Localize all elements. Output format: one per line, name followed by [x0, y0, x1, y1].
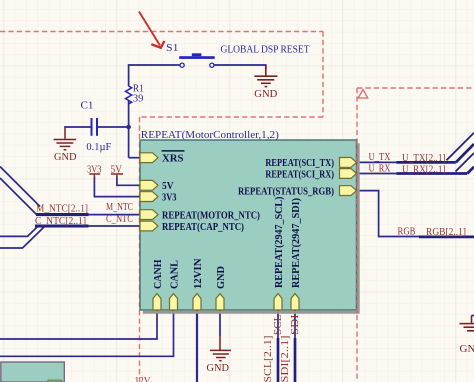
svg-text:U_TX: U_TX [369, 152, 391, 163]
svg-text:REPEAT(2947_SCL): REPEAT(2947_SCL) [273, 196, 285, 288]
svg-text:3V3: 3V3 [162, 191, 177, 203]
sheet entry 12VIN [193, 294, 201, 310]
svg-text:U_TX[2..1]: U_TX[2..1] [402, 153, 446, 164]
svg-text:GND: GND [54, 151, 77, 163]
svg-text:REPEAT(2947_SDI): REPEAT(2947_SDI) [290, 198, 302, 288]
wire right edge to GND [472, 315, 474, 317]
svg-text:GLOBAL DSP RESET: GLOBAL DSP RESET [221, 43, 310, 55]
ground at right edge [460, 316, 474, 331]
wire CANH [0, 310, 157, 339]
ground below sheet GND pin [210, 336, 231, 361]
svg-text:C1: C1 [81, 99, 94, 111]
wire C1 left plate to GND [65, 126, 91, 129]
svg-text:U_RX: U_RX [369, 163, 391, 174]
sheet entry MOTOR_NTC [140, 210, 158, 220]
wire 12VIN [196, 310, 198, 382]
wire GND pin drop [219, 310, 221, 336]
wire XRS stub [129, 157, 140, 159]
svg-text:REPEAT(CAP_NTC): REPEAT(CAP_NTC) [162, 221, 244, 233]
bus U_TX[2..1] [397, 161, 456, 164]
svg-text:12VIN: 12VIN [192, 258, 204, 289]
blanket right room left edge overlay on sheet shadow [356, 140, 358, 315]
wire M_NTC [89, 214, 141, 216]
wire diagonal into M_NTC bus upper [0, 167, 40, 207]
bus U_TX diagonal [456, 144, 474, 162]
svg-text:RGB: RGB [398, 226, 416, 237]
sheet entry 5V [140, 180, 158, 190]
blanket REPEAT room left edge [139, 117, 141, 382]
blanket GLOBAL DSP RESET right edge [322, 32, 324, 118]
wire S1 right to GND drop [214, 65, 266, 69]
wire R1 bottom to XRS node [128, 100, 130, 157]
sheet entry XRS [140, 153, 158, 163]
svg-text:CANH: CANH [152, 259, 164, 289]
sheet entry SCI_RX [340, 169, 357, 179]
resistor R1 [126, 86, 132, 104]
svg-text:REPEAT(SCI_RX): REPEAT(SCI_RX) [265, 168, 334, 180]
ground below C1 [54, 127, 77, 150]
wire diagonal from C_NTC bus upper [0, 227, 38, 237]
capacitor C1 [92, 118, 98, 136]
bus U_TX upper diagonal [447, 133, 474, 161]
svg-text:SCL: SCL [273, 315, 284, 336]
wire S1 left to R1 top [129, 65, 181, 86]
svg-text:SDI[2..1]: SDI[2..1] [280, 336, 291, 382]
blanket right room top edge [357, 87, 474, 89]
sheet symbol U_Motor body [140, 140, 357, 310]
svg-text:XRS: XRS [162, 153, 184, 165]
wire U_RX [357, 173, 397, 175]
svg-text:M_NTC[2..1]: M_NTC[2..1] [36, 204, 88, 215]
junction node C1/R1/XRS [126, 125, 131, 130]
svg-text:C_NTC: C_NTC [106, 214, 133, 225]
wire SCL thin [277, 310, 279, 338]
svg-text:SCL[2..1]: SCL[2..1] [263, 336, 274, 382]
svg-text:S1: S1 [166, 42, 179, 54]
bus U_RX[2..1] [397, 172, 468, 175]
wire RGB from STATUS_RGB entry [357, 191, 420, 237]
svg-text:REPEAT(MotorController,1,2): REPEAT(MotorController,1,2) [141, 129, 279, 141]
sheet entry CAP_NTC [140, 221, 158, 231]
svg-text:3V3: 3V3 [87, 163, 102, 175]
bus U_RX diagonal [467, 167, 474, 174]
blanket triangle marker [358, 90, 368, 99]
svg-text:C_NTC[2..1]: C_NTC[2..1] [35, 216, 86, 227]
sheet entry 3V3 [140, 192, 158, 202]
power port 3V3 [89, 174, 100, 178]
wire C1 right plate to node [98, 126, 129, 128]
wire 3V3 to sheet entry [94, 177, 140, 197]
bus C_NTC[2..1] [35, 224, 89, 227]
svg-text:5V: 5V [111, 163, 123, 175]
svg-text:REPEAT(MOTOR_NTC): REPEAT(MOTOR_NTC) [162, 209, 260, 221]
svg-text:GND: GND [207, 362, 230, 374]
power port 5V [111, 174, 123, 178]
wire diagonal into M_NTC bus lower [0, 178, 37, 215]
svg-text:RGB[2..1]: RGB[2..1] [426, 227, 466, 238]
svg-text:CANL: CANL [168, 260, 180, 289]
blanket right room left edge [356, 88, 358, 382]
sheet entry 2947_SDI [291, 294, 299, 310]
sheet symbol 2 inner entry [48, 380, 62, 382]
sheet entry SCI_TX [340, 158, 357, 168]
wire C_NTC [89, 225, 141, 227]
wire diagonal from C_NTC bus lower [0, 227, 44, 248]
bus SCL[2..1] [277, 338, 280, 382]
sheet symbol U_Motor shadow [143, 143, 360, 314]
svg-text:5V: 5V [162, 180, 174, 192]
blanket REPEAT room top edge [140, 116, 324, 118]
sheet entry CANL [170, 294, 178, 310]
bus U_RX upper diagonal [456, 153, 474, 172]
svg-text:REPEAT(STATUS_RGB): REPEAT(STATUS_RGB) [238, 185, 334, 197]
svg-text:M_NTC: M_NTC [106, 202, 133, 213]
svg-text:0.1µF: 0.1µF [86, 141, 111, 153]
sheet symbol 2 (bottom left) [1, 362, 65, 382]
svg-text:GND: GND [254, 88, 277, 100]
svg-text:GND: GND [460, 343, 474, 355]
wire CANL [0, 310, 174, 356]
bus RGB[2..1] [419, 236, 474, 239]
svg-text:39: 39 [133, 92, 144, 104]
bus SDI[2..1] [294, 338, 297, 382]
sheet entry 2947_SCL [274, 294, 282, 310]
sheet entry STATUS_RGB [340, 186, 357, 196]
svg-text:GND: GND [215, 266, 227, 289]
wire U_TX [357, 161, 397, 163]
svg-text:U_RX[2..1]: U_RX[2..1] [402, 164, 446, 175]
bus M_NTC[2..1] [36, 213, 89, 216]
svg-text:SDI: SDI [290, 314, 301, 335]
svg-text:12V: 12V [135, 375, 151, 382]
annotation arrow pointing at S1 [139, 12, 164, 48]
switch S1 [179, 53, 215, 67]
sheet entry CANH [153, 294, 161, 310]
sheet entry GND [216, 294, 224, 310]
blanket GLOBAL DSP RESET top edge [0, 31, 323, 33]
wire SDI thin [294, 310, 296, 338]
wire 5V to sheet entry [117, 177, 140, 186]
ground below S1 [254, 65, 277, 87]
